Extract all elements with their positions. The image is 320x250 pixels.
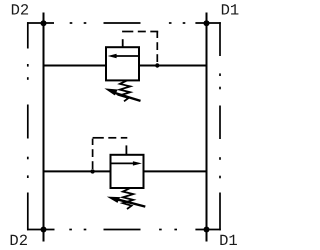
- wire: relief valve RV1 outlet to right rail: [139, 65, 207, 67]
- enclosure top edge (dash-dot): [27, 22, 221, 24]
- relief valve RV2 body: [111, 155, 144, 188]
- junction dot D1 bottom: [204, 227, 210, 233]
- relief valve RV1 spring: [120, 80, 130, 101]
- junction dot D2 top: [41, 20, 47, 26]
- svg-text:D2: D2: [9, 232, 28, 250]
- wire: left rail to relief valve RV1 inlet: [44, 65, 107, 67]
- svg-text:D1: D1: [219, 232, 238, 250]
- enclosure left edge (dash-dot): [27, 22, 29, 230]
- port line D2 (left rail): [43, 13, 45, 242]
- relief valve RV2 pilot stub to body: [125, 145, 127, 154]
- enclosure right edge (dash-dot): [219, 22, 221, 230]
- svg-text:D1: D1: [221, 2, 240, 20]
- relief valve RV1 pilot line (dashed): [122, 32, 158, 66]
- relief valve RV2 spring: [123, 188, 133, 209]
- relief valve RV2 adjustment arrow: [107, 197, 146, 207]
- relief valve RV1 body: [106, 47, 139, 80]
- junction dot D2 bottom: [41, 227, 47, 233]
- pilot tap junction dot on RV1 outlet line: [155, 63, 159, 67]
- wire: relief valve RV2 outlet to right rail: [144, 170, 207, 172]
- relief valve RV2 pilot line (dashed): [93, 138, 128, 172]
- port line D1 (right rail): [206, 13, 208, 242]
- relief valve RV1 pilot stub to body: [122, 39, 124, 47]
- relief valve RV1 adjustment arrow: [104, 88, 140, 101]
- wire: left rail to relief valve RV2 inlet: [44, 170, 111, 172]
- relief valve RV1 flow arrow (points left): [108, 54, 138, 58]
- relief valve RV2 flow arrow (points right): [112, 161, 142, 165]
- svg-text:D2: D2: [11, 2, 30, 20]
- pilot tap junction dot on RV2 inlet line: [90, 169, 94, 173]
- junction dot D1 top: [204, 20, 210, 26]
- enclosure bottom edge (dash-dot): [27, 229, 221, 231]
